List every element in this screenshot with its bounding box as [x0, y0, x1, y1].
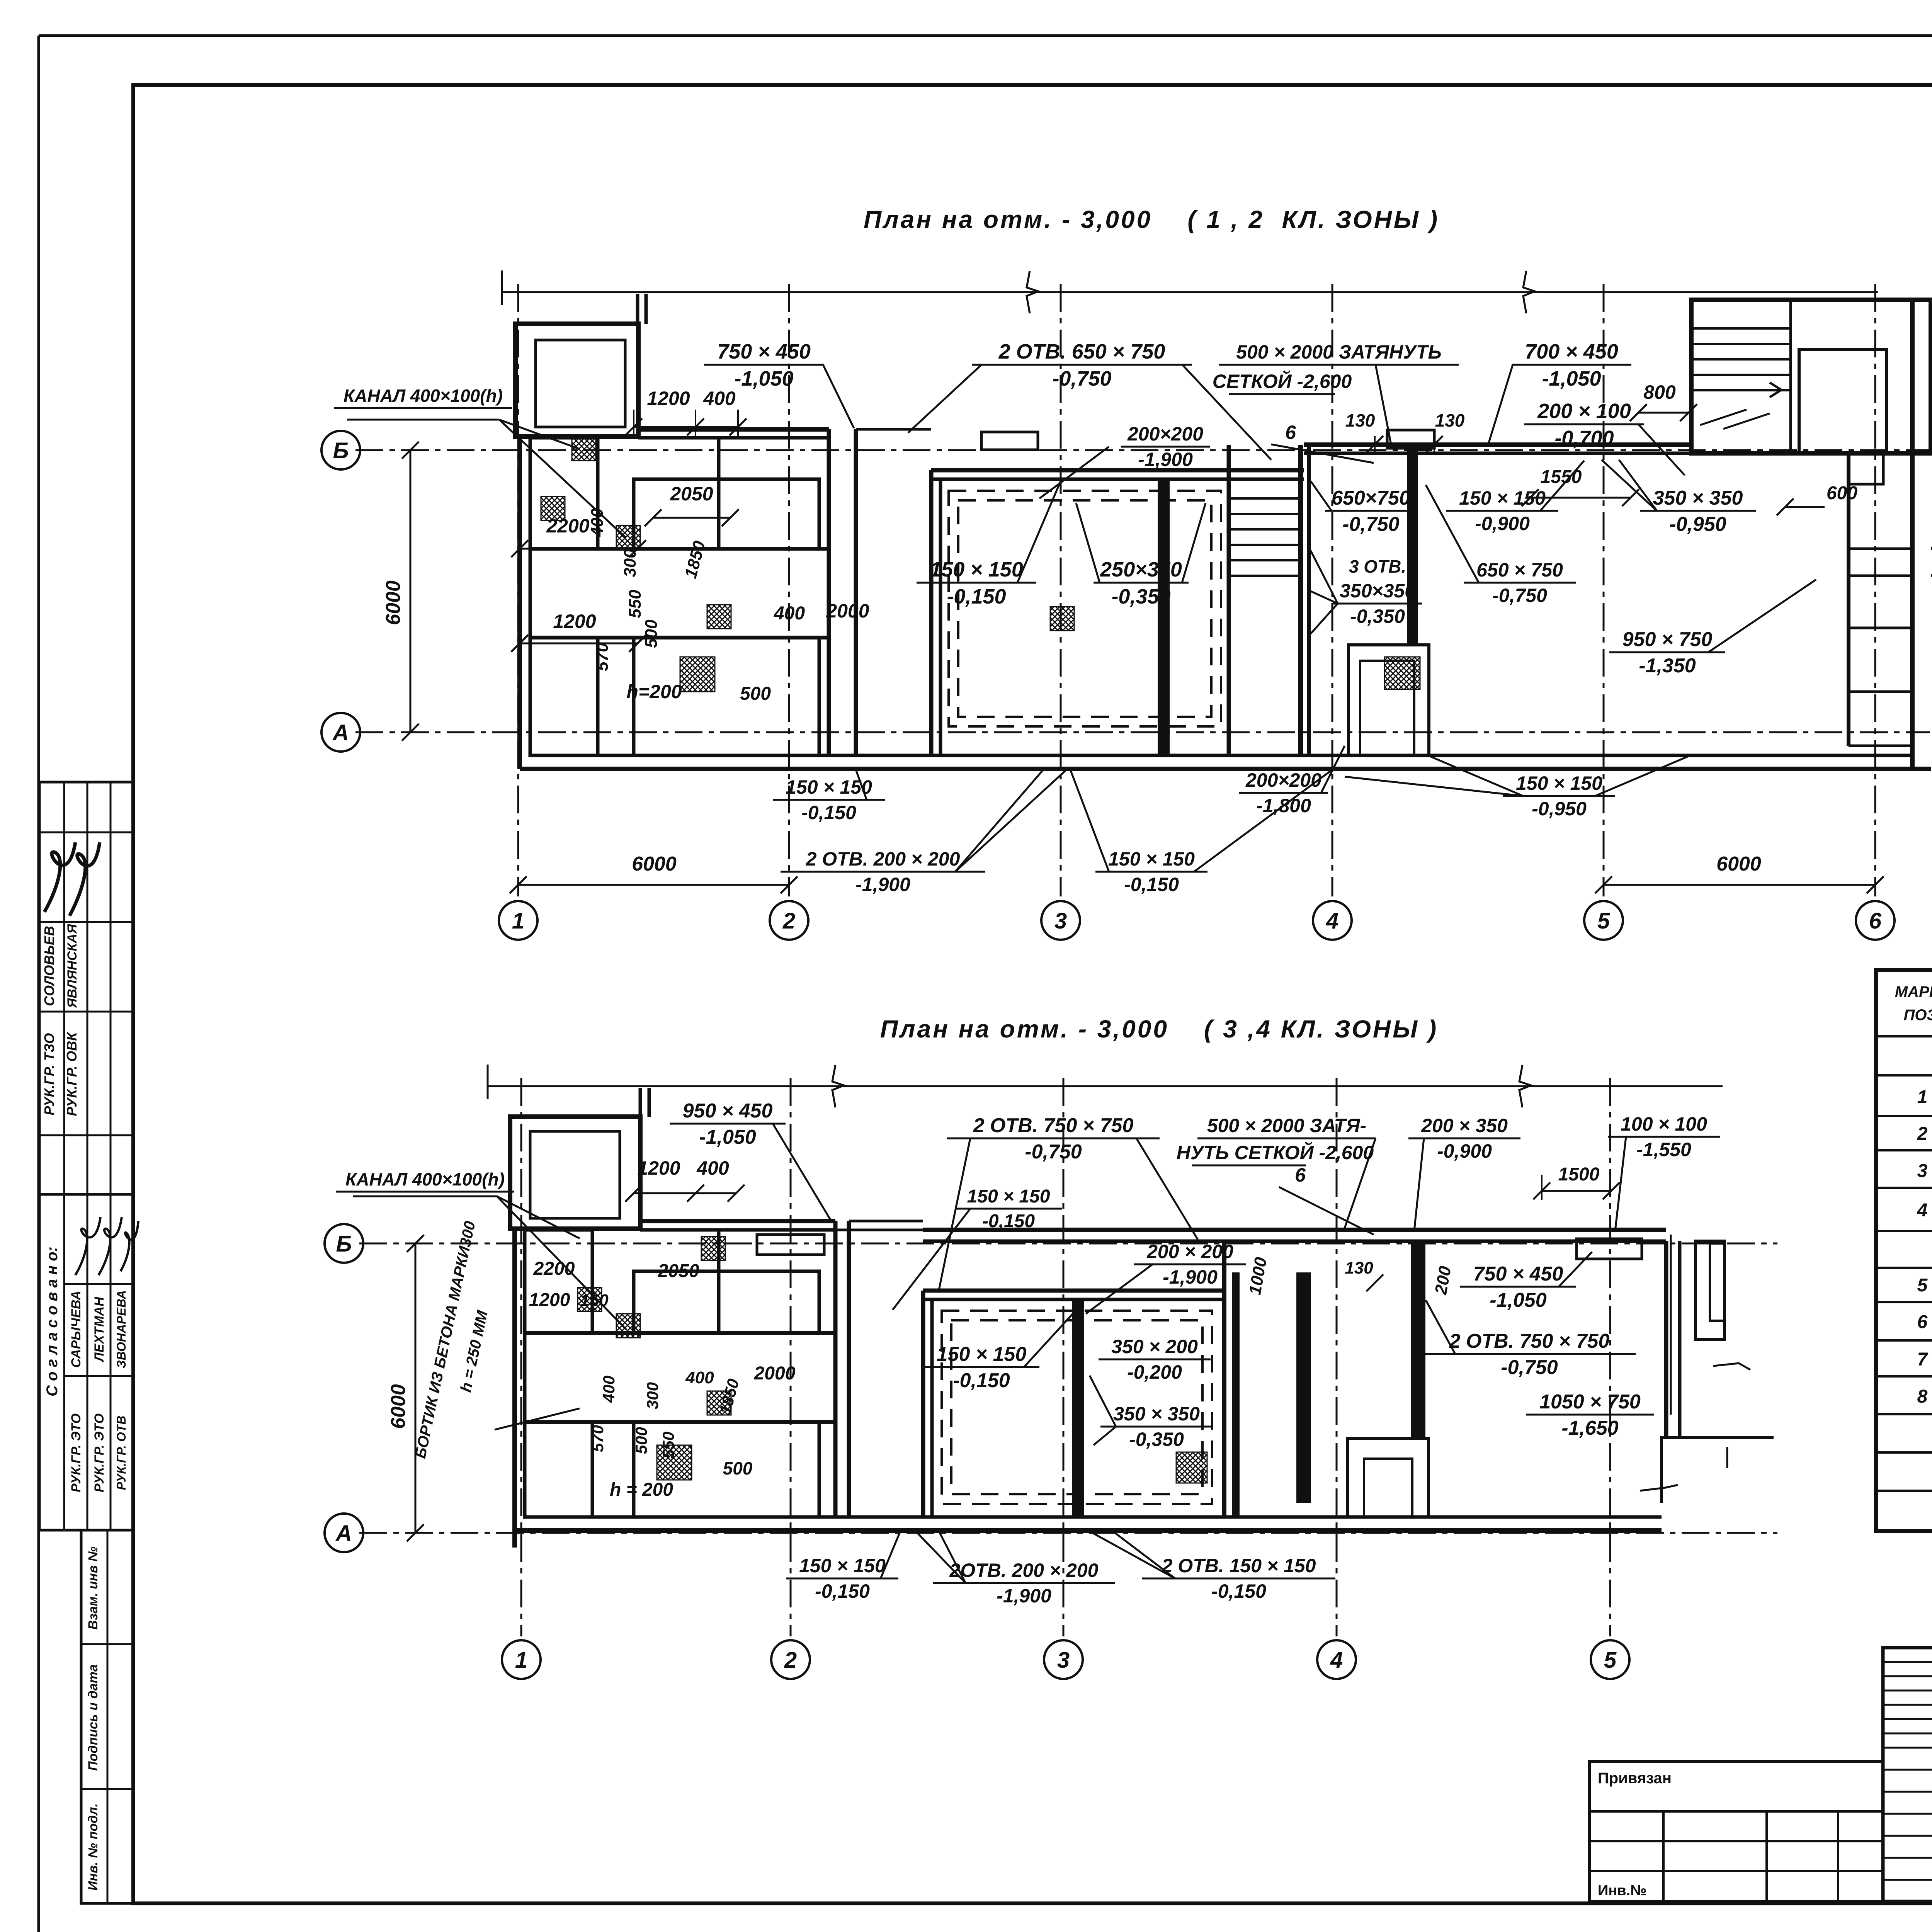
svg-text:-0,900: -0,900: [1437, 1140, 1492, 1162]
svg-text:ПОЗ.: ПОЗ.: [1904, 1007, 1932, 1024]
svg-text:-0,350: -0,350: [1129, 1429, 1184, 1450]
svg-text:400: 400: [774, 603, 805, 624]
svg-text:-1,050: -1,050: [699, 1126, 756, 1148]
svg-text:-0,750: -0,750: [1025, 1141, 1082, 1163]
svg-text:-0,150: -0,150: [953, 1369, 1010, 1392]
svg-text:200 × 100: 200 × 100: [1537, 400, 1631, 423]
svg-text:-0,150: -0,150: [801, 802, 856, 823]
svg-text:РУК.ГР. ОВК: РУК.ГР. ОВК: [64, 1031, 80, 1116]
svg-text:ЗВОНАРЕВА: ЗВОНАРЕВА: [114, 1290, 128, 1368]
svg-text:6000: 6000: [387, 1384, 410, 1429]
svg-text:САРЫЧЕВА: САРЫЧЕВА: [69, 1291, 83, 1368]
svg-text:ЯВЛЯНСКАЯ: ЯВЛЯНСКАЯ: [65, 923, 80, 1008]
svg-text:-0,350: -0,350: [1111, 585, 1170, 608]
svg-text:130: 130: [1345, 1259, 1373, 1277]
svg-text:100 × 100: 100 × 100: [1621, 1113, 1707, 1135]
svg-text:-0,750: -0,750: [1501, 1356, 1558, 1379]
svg-text:6: 6: [1869, 908, 1882, 934]
svg-text:1050 × 750: 1050 × 750: [1539, 1391, 1641, 1413]
svg-text:1500: 1500: [1558, 1164, 1600, 1185]
svg-text:-1,900: -1,900: [1138, 449, 1193, 470]
svg-text:2: 2: [1917, 1124, 1928, 1144]
svg-text:2200: 2200: [546, 515, 589, 537]
svg-text:400: 400: [696, 1157, 729, 1179]
svg-text:150 × 150: 150 × 150: [1108, 848, 1195, 870]
svg-text:Инв. № подл.: Инв. № подл.: [86, 1803, 100, 1891]
svg-text:-0,700: -0,700: [1554, 427, 1614, 450]
svg-text:570: 570: [588, 1425, 607, 1452]
svg-text:150 × 150: 150 × 150: [799, 1555, 886, 1577]
svg-text:650 × 750: 650 × 750: [1476, 559, 1563, 581]
svg-text:550: 550: [659, 1432, 677, 1459]
svg-text:2 ОТВ. 750 × 750: 2 ОТВ. 750 × 750: [1449, 1330, 1610, 1352]
svg-text:4: 4: [1330, 1648, 1343, 1673]
svg-text:МАРКА: МАРКА: [1895, 983, 1932, 1000]
svg-text:4: 4: [1326, 908, 1338, 934]
svg-text:500: 500: [723, 1458, 753, 1478]
svg-text:8: 8: [1917, 1386, 1928, 1407]
svg-text:250×350: 250×350: [1100, 558, 1182, 581]
svg-text:150: 150: [580, 1291, 609, 1310]
svg-text:А: А: [335, 1521, 352, 1546]
svg-text:А: А: [332, 720, 349, 745]
svg-text:150 × 150: 150 × 150: [930, 558, 1023, 581]
svg-text:700 × 450: 700 × 450: [1525, 340, 1618, 363]
svg-text:3: 3: [1917, 1161, 1928, 1181]
svg-text:2 ОТВ. 650 × 750: 2 ОТВ. 650 × 750: [998, 340, 1165, 363]
svg-text:800: 800: [1643, 381, 1676, 403]
svg-text:130: 130: [1345, 410, 1375, 430]
svg-text:С о г л а с о в а н о:: С о г л а с о в а н о:: [44, 1247, 61, 1396]
svg-text:-0,350: -0,350: [1350, 605, 1405, 627]
svg-text:550: 550: [626, 590, 645, 618]
svg-text:2 ОТВ. 750 × 750: 2 ОТВ. 750 × 750: [973, 1114, 1134, 1137]
svg-text:h=200: h=200: [626, 681, 682, 702]
svg-text:-0,150: -0,150: [947, 585, 1006, 608]
svg-text:-1,650: -1,650: [1561, 1417, 1619, 1439]
svg-text:2: 2: [784, 1648, 797, 1673]
svg-text:650×750: 650×750: [1332, 487, 1410, 509]
svg-text:500: 500: [642, 619, 661, 648]
svg-text:500 × 2000 ЗАТЯНУТЬ: 500 × 2000 ЗАТЯНУТЬ: [1236, 341, 1442, 363]
svg-text:6000: 6000: [632, 853, 677, 875]
svg-text:2: 2: [782, 908, 795, 934]
svg-text:6: 6: [1285, 422, 1296, 443]
svg-text:-1,900: -1,900: [997, 1585, 1051, 1607]
svg-text:350 × 200: 350 × 200: [1111, 1336, 1198, 1357]
svg-text:300: 300: [643, 1382, 662, 1409]
svg-text:1200: 1200: [529, 1290, 570, 1310]
svg-text:-1,550: -1,550: [1636, 1139, 1691, 1160]
svg-text:6: 6: [1917, 1312, 1928, 1332]
svg-text:400: 400: [703, 388, 736, 409]
svg-text:3: 3: [1057, 1648, 1070, 1673]
svg-text:КАНАЛ 400×100(h): КАНАЛ 400×100(h): [345, 1169, 505, 1189]
svg-text:130: 130: [1435, 410, 1465, 430]
svg-text:350 × 350: 350 × 350: [1113, 1403, 1200, 1425]
svg-text:350×350: 350×350: [1340, 580, 1415, 602]
svg-text:1: 1: [1917, 1087, 1928, 1107]
svg-text:200×200: 200×200: [1245, 769, 1321, 791]
svg-text:-0,150: -0,150: [815, 1580, 870, 1602]
svg-text:Инв.№: Инв.№: [1598, 1883, 1647, 1899]
svg-text:КАНАЛ 400×100(h): КАНАЛ 400×100(h): [344, 386, 503, 406]
svg-text:300: 300: [621, 549, 639, 577]
svg-text:500: 500: [740, 684, 771, 704]
svg-text:750 × 450: 750 × 450: [717, 340, 811, 363]
svg-text:РУК.ГР. ТЗО: РУК.ГР. ТЗО: [41, 1033, 57, 1116]
svg-text:-1,050: -1,050: [1542, 367, 1601, 390]
svg-text:-0,950: -0,950: [1532, 798, 1587, 820]
svg-text:-0,950: -0,950: [1669, 513, 1726, 536]
svg-text:-0,200: -0,200: [1127, 1361, 1182, 1383]
svg-text:200 × 200: 200 × 200: [1146, 1241, 1233, 1262]
svg-text:200 × 350: 200 × 350: [1421, 1115, 1508, 1136]
svg-text:-0,900: -0,900: [1475, 513, 1530, 534]
svg-text:РУК.ГР. ОТВ: РУК.ГР. ОТВ: [114, 1416, 128, 1490]
svg-text:400: 400: [685, 1368, 714, 1387]
svg-text:600: 600: [1827, 483, 1857, 503]
svg-text:5: 5: [1917, 1275, 1928, 1296]
svg-text:РУК.ГР. ЭТО: РУК.ГР. ЭТО: [69, 1413, 83, 1492]
svg-text:2 ОТВ. 200 × 200: 2 ОТВ. 200 × 200: [806, 848, 960, 870]
svg-text:-0,750: -0,750: [1492, 585, 1547, 606]
svg-text:1200: 1200: [637, 1157, 680, 1179]
svg-text:СОЛОВЬЕВ: СОЛОВЬЕВ: [41, 926, 57, 1006]
svg-text:-0,150: -0,150: [982, 1211, 1035, 1231]
svg-text:3 ОТВ.: 3 ОТВ.: [1349, 556, 1406, 577]
svg-text:ЛЕХТМАН: ЛЕХТМАН: [92, 1296, 107, 1363]
svg-text:1550: 1550: [1541, 467, 1582, 487]
svg-text:150 × 150: 150 × 150: [937, 1343, 1027, 1366]
svg-text:750 × 450: 750 × 450: [1473, 1263, 1563, 1285]
svg-text:400: 400: [588, 508, 607, 537]
svg-text:2000: 2000: [754, 1363, 796, 1384]
svg-text:НУТЬ СЕТКОЙ -2,600: НУТЬ СЕТКОЙ -2,600: [1177, 1141, 1374, 1163]
svg-text:2000: 2000: [826, 600, 869, 622]
svg-text:400: 400: [600, 1376, 618, 1403]
svg-text:7: 7: [1917, 1349, 1929, 1370]
svg-text:6000: 6000: [382, 580, 405, 625]
svg-text:950 × 750: 950 × 750: [1622, 628, 1713, 651]
svg-text:200×200: 200×200: [1127, 423, 1203, 445]
svg-text:-0,150: -0,150: [1124, 874, 1179, 895]
svg-text:План на отм. - 3,000 ( 3 ,: План на отм. - 3,000 ( 3 ,4 КЛ. ЗОНЫ ): [880, 1015, 1438, 1043]
svg-text:1: 1: [512, 908, 524, 934]
svg-text:СЕТКОЙ -2,600: СЕТКОЙ -2,600: [1213, 370, 1352, 392]
svg-text:4: 4: [1917, 1200, 1928, 1221]
svg-text:2 ОТВ. 150 × 150: 2 ОТВ. 150 × 150: [1162, 1555, 1316, 1577]
svg-text:6: 6: [1295, 1164, 1306, 1186]
svg-text:500: 500: [632, 1427, 650, 1454]
svg-text:-1,050: -1,050: [1490, 1289, 1547, 1311]
svg-text:150 × 150: 150 × 150: [1516, 772, 1602, 794]
svg-text:h = 200: h = 200: [610, 1480, 673, 1500]
svg-text:5: 5: [1604, 1648, 1617, 1673]
svg-text:-1,050: -1,050: [734, 367, 793, 390]
svg-text:Взам. инв №: Взам. инв №: [86, 1546, 100, 1629]
svg-text:-0,750: -0,750: [1342, 513, 1400, 536]
svg-text:5: 5: [1597, 908, 1610, 934]
svg-text:2050: 2050: [658, 1261, 699, 1281]
svg-text:Б: Б: [333, 438, 349, 463]
svg-text:Привязан: Привязан: [1598, 1770, 1672, 1787]
svg-text:-0,750: -0,750: [1052, 367, 1111, 390]
svg-text:1200: 1200: [647, 388, 690, 409]
svg-text:Б: Б: [336, 1231, 352, 1257]
svg-text:950 × 450: 950 × 450: [683, 1100, 773, 1122]
svg-text:-1,900: -1,900: [1163, 1266, 1218, 1288]
svg-text:6000: 6000: [1716, 853, 1761, 875]
svg-text:2200: 2200: [533, 1259, 575, 1279]
svg-text:План на отм. - 3,000 ( 1 ,: План на отм. - 3,000 ( 1 , 2 КЛ. ЗОНЫ ): [864, 206, 1439, 233]
svg-text:2ОТВ. 200 × 200: 2ОТВ. 200 × 200: [949, 1560, 1099, 1581]
svg-text:-1,900: -1,900: [855, 874, 910, 895]
svg-text:500 × 2000 ЗАТЯ-: 500 × 2000 ЗАТЯ-: [1207, 1115, 1366, 1136]
svg-text:150 × 150: 150 × 150: [967, 1186, 1050, 1207]
svg-text:3: 3: [1054, 908, 1067, 934]
svg-text:-1,350: -1,350: [1639, 655, 1696, 677]
svg-text:Подпись и дата: Подпись и дата: [86, 1664, 100, 1771]
svg-text:570: 570: [593, 643, 612, 671]
svg-text:РУК.ГР. ЭТО: РУК.ГР. ЭТО: [92, 1413, 107, 1492]
svg-text:2050: 2050: [670, 483, 713, 505]
svg-text:350 × 350: 350 × 350: [1653, 487, 1743, 509]
svg-text:-0,150: -0,150: [1211, 1580, 1266, 1602]
svg-text:1: 1: [515, 1648, 527, 1673]
svg-text:1200: 1200: [553, 611, 596, 632]
